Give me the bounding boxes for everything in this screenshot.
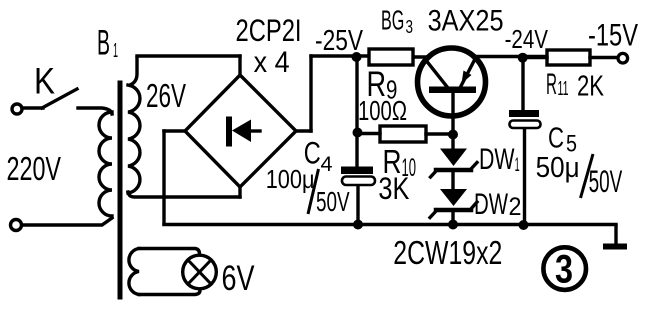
svg-text:x 4: x 4 xyxy=(254,46,290,79)
svg-text:K: K xyxy=(34,61,55,102)
svg-text:4: 4 xyxy=(321,153,333,176)
svg-text:220V: 220V xyxy=(7,150,62,187)
svg-text:2CW19x2: 2CW19x2 xyxy=(393,235,502,272)
svg-text:DW: DW xyxy=(474,188,508,221)
svg-text:-24V: -24V xyxy=(505,24,549,54)
svg-text:100μ: 100μ xyxy=(266,164,315,194)
svg-text:6V: 6V xyxy=(222,259,256,298)
svg-text:B: B xyxy=(97,24,110,63)
svg-text:3AX25: 3AX25 xyxy=(428,5,504,38)
svg-text:-25V: -25V xyxy=(315,25,364,57)
svg-text:2: 2 xyxy=(509,194,522,221)
svg-text:50V: 50V xyxy=(589,163,623,199)
svg-text:-15V: -15V xyxy=(588,16,638,52)
svg-text:R: R xyxy=(546,68,557,101)
svg-text:2K: 2K xyxy=(577,71,604,103)
svg-text:50V: 50V xyxy=(316,186,350,217)
svg-text:1: 1 xyxy=(515,155,520,176)
svg-text:2CP2I: 2CP2I xyxy=(236,12,302,48)
svg-text:DW: DW xyxy=(479,143,515,176)
svg-text:3: 3 xyxy=(555,248,573,292)
svg-text:11: 11 xyxy=(558,78,569,100)
svg-text:3K: 3K xyxy=(378,170,409,206)
svg-text:100Ω: 100Ω xyxy=(358,95,407,126)
svg-text:26V: 26V xyxy=(146,77,186,114)
svg-text:3: 3 xyxy=(406,17,414,37)
svg-text:C: C xyxy=(548,123,564,155)
svg-text:50μ: 50μ xyxy=(536,152,580,184)
svg-text:1: 1 xyxy=(113,40,118,62)
svg-text:BG: BG xyxy=(381,5,404,36)
